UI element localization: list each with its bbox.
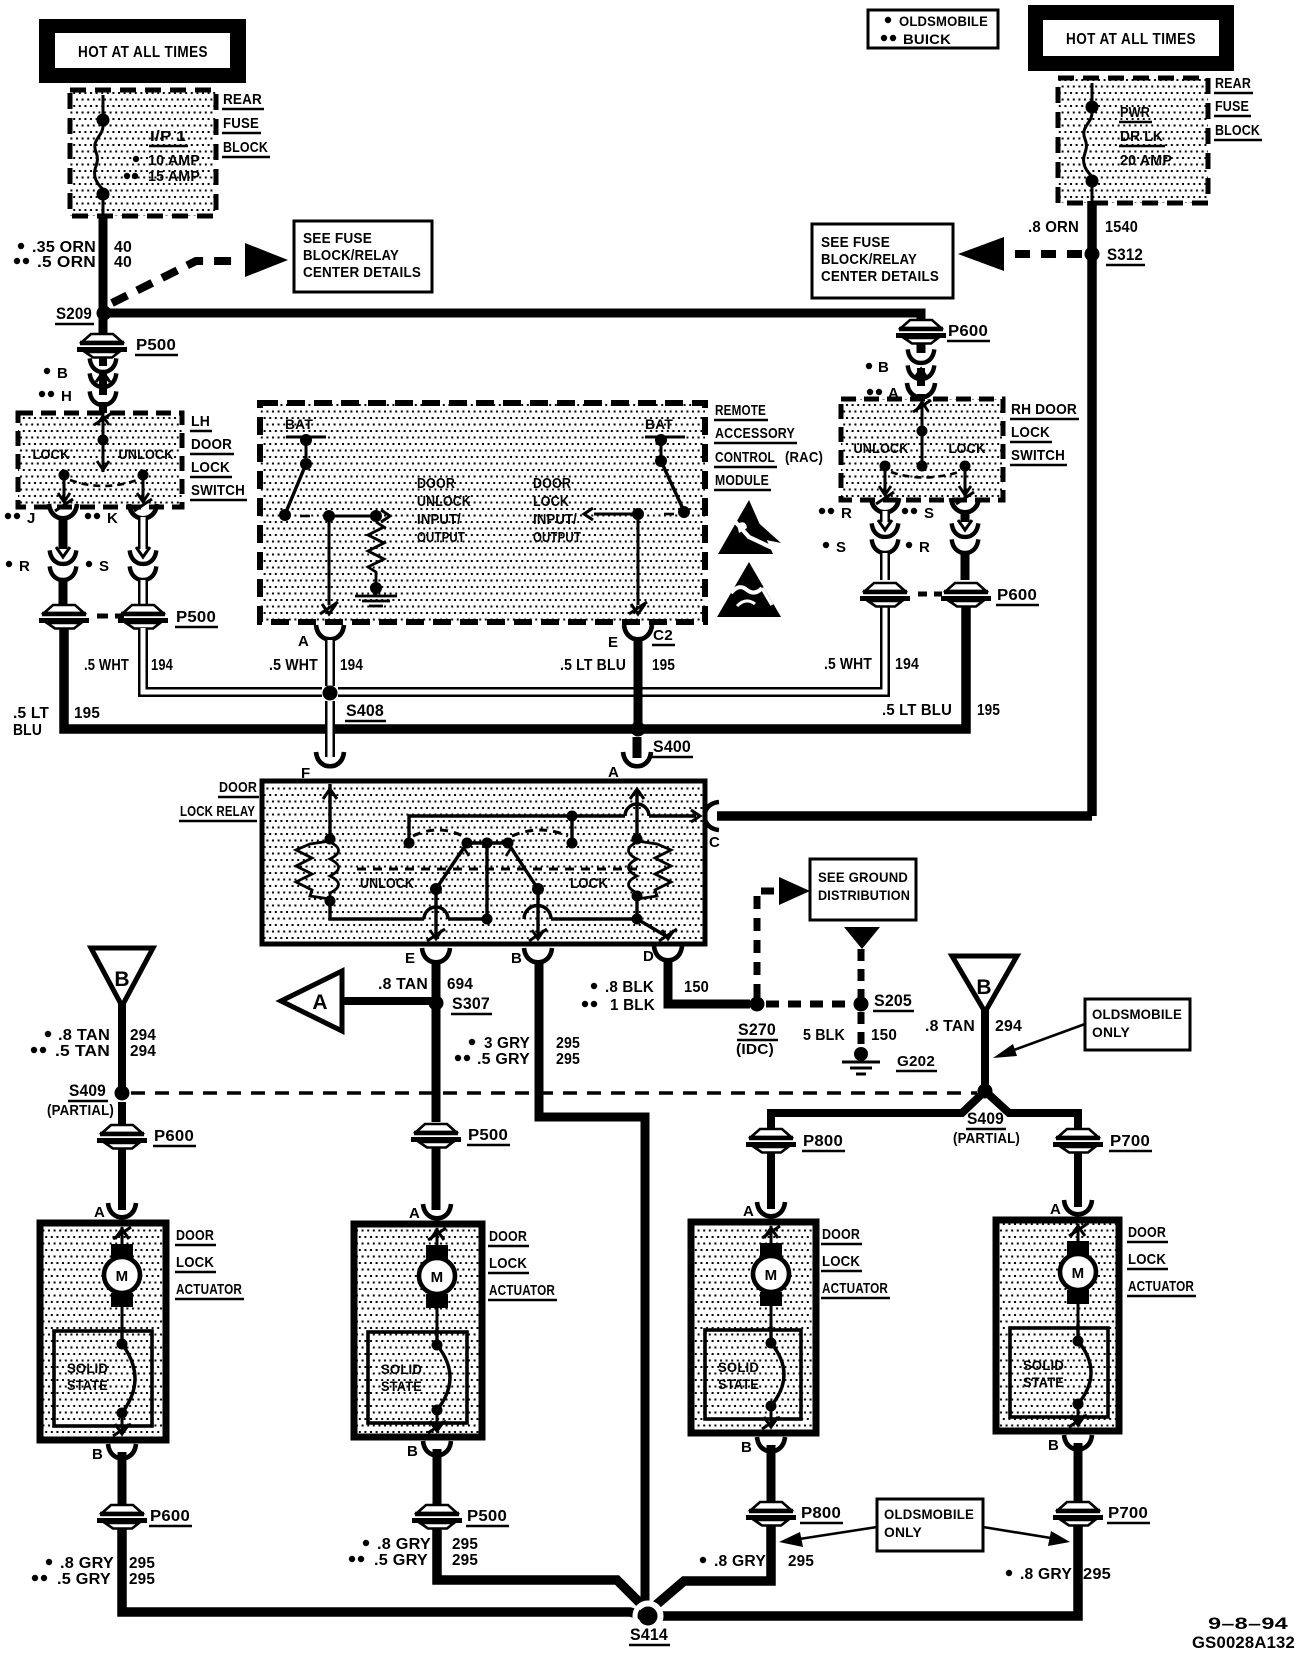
svg-text:.8 GRY: .8 GRY (60, 1555, 114, 1572)
svg-text:B: B (741, 1439, 752, 1456)
svg-text:(PARTIAL): (PARTIAL) (953, 1130, 1020, 1147)
drawing number GS0028A132 (1192, 1633, 1295, 1652)
svg-text:I/P 1: I/P 1 (150, 128, 186, 145)
svg-text:DOOR: DOOR (1128, 1224, 1166, 1241)
actuator 4 internal switch arc (1069, 1324, 1091, 1427)
svg-text:BUICK: BUICK (903, 31, 951, 47)
svg-text:40: 40 (114, 254, 132, 271)
svg-text:M: M (431, 1269, 444, 1286)
svg-text:S: S (924, 505, 934, 522)
rear fuse block (right, stippled dashed box) (1058, 78, 1208, 203)
svg-text:295: 295 (1083, 1566, 1111, 1583)
svg-text:P500: P500 (468, 1127, 508, 1144)
svg-text:(PARTIAL): (PARTIAL) (47, 1102, 114, 1119)
relay terminal F wire and up arrow (323, 784, 337, 839)
svg-text:BLOCK: BLOCK (223, 139, 268, 156)
svg-text:OLDSMOBILE: OLDSMOBILE (884, 1506, 974, 1522)
wire label .5 WHT 194 (RAC A) (269, 657, 363, 674)
wire RH right with in-line connector R (906, 511, 979, 580)
relay terminal letters F A (301, 764, 619, 782)
dashed S409 partial bus across page (131, 1091, 977, 1095)
note box SEE GROUND DISTRIBUTION (810, 859, 916, 920)
ground G202 (842, 1047, 937, 1074)
svg-text:10 AMP: 10 AMP (148, 152, 200, 169)
wire label 3 GRY / .5 GRY 295 295 (455, 1035, 580, 1068)
hollow 194 bus from S408 to RH switch (338, 606, 885, 692)
svg-text:.5 LT BLU: .5 LT BLU (560, 657, 626, 674)
svg-text:R: R (919, 539, 930, 556)
svg-text:B: B (92, 1446, 103, 1463)
wire relay B down and over to S414 (circuit 295 GRY) (539, 962, 645, 1604)
relay bottom cups E B D (405, 946, 682, 967)
svg-text:195: 195 (977, 702, 1000, 719)
svg-text:CONTROL: CONTROL (715, 449, 775, 466)
svg-text:294: 294 (130, 1043, 156, 1060)
svg-text:LOCK: LOCK (570, 875, 608, 892)
svg-text:.5 TAN: .5 TAN (55, 1043, 110, 1060)
wire S209 down to P500 (LH feed) (99, 318, 108, 334)
actuator 1 motor M (104, 1227, 140, 1331)
RAC door lock output wire to terminal E (629, 514, 647, 614)
revision date 9-8-94 (1208, 1614, 1288, 1633)
svg-text:LOCK: LOCK (822, 1253, 860, 1270)
note box SEE FUSE BLOCK/RELAY CENTER DETAILS (right) (812, 224, 953, 298)
actuator 4 terminal B cup (1048, 1435, 1092, 1454)
wire B triangle right to S409 (981, 1010, 989, 1091)
svg-text:DOOR: DOOR (417, 476, 455, 492)
svg-text:RH DOOR: RH DOOR (1011, 401, 1077, 418)
actuator 2 terminal A cup (409, 1204, 451, 1222)
svg-text:C: C (709, 834, 720, 851)
svg-text:M: M (1072, 1265, 1085, 1282)
RAC lock switch blade (584, 461, 690, 520)
relay terminal A cup (623, 752, 651, 766)
svg-text:A: A (298, 633, 309, 650)
svg-text:P600: P600 (948, 323, 988, 340)
splice S400 (631, 722, 694, 758)
wire label .8 TAN 294 (right) (925, 1018, 1022, 1035)
svg-text:S205: S205 (874, 991, 912, 1010)
svg-text:A: A (94, 1204, 105, 1221)
svg-text:294: 294 (130, 1027, 156, 1044)
RH switch terminal cups R / S (819, 498, 979, 522)
svg-text:20 AMP: 20 AMP (1120, 152, 1172, 169)
wire RAC A to splice S408 (hollow, circuit 194) (325, 640, 335, 686)
svg-text:LOCK: LOCK (33, 446, 70, 462)
wire label .8 GRY / .5 GRY 295 295 (actuator 2) (349, 1536, 478, 1569)
svg-text:DOOR: DOOR (822, 1226, 860, 1243)
svg-text:G202: G202 (897, 1053, 935, 1070)
wire RH left with in-line connector S (hollow) (823, 511, 899, 580)
actuator 2 terminal B cup (407, 1441, 451, 1460)
svg-text:P800: P800 (803, 1133, 843, 1150)
svg-text:R: R (19, 558, 30, 575)
svg-text:P600: P600 (150, 1508, 190, 1525)
in-line terminals B / H on LH feed (39, 357, 117, 413)
connector P800 (actuator 3 return) (746, 1445, 843, 1526)
wire relay C to main feed from S312 (717, 811, 1092, 821)
svg-text:295: 295 (129, 1571, 155, 1588)
actuator 2 motor M (419, 1228, 455, 1332)
svg-text:STATE: STATE (718, 1376, 759, 1392)
wire LH K with in-line connector S (86, 517, 157, 604)
wire label .5 LT BLU 195 (RH) (882, 702, 1000, 719)
wire A triangle to S307 (342, 997, 432, 1005)
svg-text:(RAC): (RAC) (785, 449, 823, 466)
svg-text:HOT AT ALL TIMES: HOT AT ALL TIMES (78, 44, 208, 61)
svg-text:.5 LT: .5 LT (13, 705, 49, 722)
svg-text:P700: P700 (1108, 1505, 1148, 1522)
svg-text:A: A (409, 1205, 420, 1222)
svg-text:195: 195 (74, 705, 100, 722)
svg-text:.8 TAN: .8 TAN (925, 1018, 975, 1035)
wire actuator 3 to S414 (656, 1525, 771, 1605)
door lock actuator 4 (stippled box) (996, 1220, 1119, 1431)
svg-text:S414: S414 (630, 1625, 668, 1644)
svg-text:STATE: STATE (67, 1377, 108, 1393)
wire label .5 WHT 194 (left) (84, 657, 173, 674)
splice S312 (1085, 245, 1146, 265)
svg-text:BAT: BAT (285, 416, 313, 432)
svg-text:SWITCH: SWITCH (191, 482, 245, 499)
power label HOT AT ALL TIMES (right) (1028, 5, 1234, 71)
RAC unlock switch blade and resistor to ground (279, 464, 397, 606)
svg-text:.5 GRY: .5 GRY (374, 1552, 428, 1569)
wire label .5 LT BLU 195 (RAC E) (560, 657, 675, 674)
svg-text:694: 694 (447, 976, 473, 993)
LH switch terminal J cup and label (5, 504, 77, 527)
svg-text:15 AMP: 15 AMP (148, 168, 200, 185)
svg-text:LH: LH (191, 413, 210, 430)
relay unlock coil K1-unlock (296, 834, 414, 907)
door lock actuator 3 (stippled box) (691, 1222, 816, 1433)
svg-text:.5 LT BLU: .5 LT BLU (882, 702, 952, 719)
svg-text:.5 GRY: .5 GRY (57, 1571, 111, 1588)
svg-text:SWITCH: SWITCH (1011, 447, 1065, 464)
svg-text:C2: C2 (653, 627, 673, 644)
off-page connector B triangle (left) (91, 948, 153, 1006)
connector P500 (LH feed) (77, 334, 178, 358)
svg-text:BLU: BLU (13, 722, 42, 739)
relay contact common and movable arms (430, 838, 544, 896)
svg-text:BLOCK/RELAY: BLOCK/RELAY (303, 248, 399, 264)
svg-text:DOOR: DOOR (176, 1227, 214, 1244)
wire label .8 ORN 1540 (1028, 219, 1138, 236)
svg-text:1 BLK: 1 BLK (610, 997, 655, 1014)
svg-text:P500: P500 (136, 337, 176, 354)
LH door lock switch (stippled dashed box) (18, 413, 182, 507)
wire P700 to actuator 4 terminal A (1074, 1152, 1082, 1207)
LH switch internal contacts LOCK / UNLOCK (33, 413, 174, 511)
splice S209 (55, 304, 112, 324)
svg-text:.5 ORN: .5 ORN (37, 254, 96, 271)
label RH DOOR LOCK SWITCH (1010, 401, 1079, 465)
relay armature linkage (dashed) (357, 830, 637, 869)
svg-text:STATE: STATE (381, 1378, 422, 1394)
note box OLDSMOBILE ONLY (lower) (779, 1499, 1070, 1551)
svg-text:295: 295 (556, 1035, 580, 1052)
svg-text:195: 195 (652, 657, 675, 674)
svg-text:.8 GRY: .8 GRY (714, 1553, 766, 1570)
wire label .8 TAN 694 (378, 976, 473, 993)
svg-text:OUTPUT: OUTPUT (417, 530, 465, 546)
fuse label PWR DR LK 20 AMP (1119, 104, 1172, 169)
svg-text:OLDSMOBILE: OLDSMOBILE (1092, 1006, 1182, 1022)
svg-text:B: B (57, 365, 68, 382)
actuator 3 terminal B cup (741, 1437, 785, 1456)
actuator 3 internal switch arc (762, 1326, 784, 1429)
svg-text:ACCESSORY: ACCESSORY (715, 425, 795, 442)
wire actuator 2 to S414 (437, 1528, 641, 1604)
svg-text:.5 GRY: .5 GRY (477, 1051, 530, 1068)
svg-text:.5 WHT: .5 WHT (824, 656, 872, 673)
ESD notice symbol 2 (717, 562, 781, 617)
relay lock coil K1-lock (570, 789, 671, 902)
svg-text:P800: P800 (801, 1505, 841, 1522)
svg-text:ACTUATOR: ACTUATOR (822, 1280, 888, 1297)
svg-text:SEE FUSE: SEE FUSE (821, 235, 890, 251)
svg-text:B: B (976, 976, 991, 999)
svg-text:SOLID: SOLID (67, 1360, 108, 1376)
relay terminal C cup and letter (705, 802, 720, 851)
relay terminal E internal wire (427, 889, 445, 941)
svg-text:UNLOCK: UNLOCK (360, 875, 414, 892)
label DOOR LOCK ACTUATOR 4 (1127, 1224, 1196, 1296)
svg-text:1540: 1540 (1105, 219, 1138, 236)
splice S205 (854, 991, 915, 1012)
svg-text:S409: S409 (967, 1109, 1004, 1128)
svg-text:LOCK: LOCK (1011, 424, 1050, 441)
wire from left fuse to S209 (99, 214, 108, 313)
svg-text:LOCK: LOCK (191, 459, 230, 476)
wire S400 down to relay terminal A (633, 737, 642, 758)
svg-text:UNLOCK: UNLOCK (854, 440, 909, 456)
svg-text:REAR: REAR (223, 91, 262, 108)
svg-text:295: 295 (788, 1553, 814, 1570)
splice S307 (429, 994, 493, 1014)
svg-text:B: B (1048, 1437, 1059, 1454)
wire from right fuse down to S312 (1087, 201, 1097, 816)
relay bottom-right link and terminal D exit (524, 896, 677, 941)
svg-text:LOCK: LOCK (489, 1255, 527, 1272)
dashed ground path S270 up to ground distribution note (757, 877, 810, 997)
svg-text:E: E (405, 950, 415, 967)
label LH DOOR LOCK SWITCH (190, 413, 247, 500)
svg-text:P700: P700 (1110, 1133, 1150, 1150)
svg-text:S409: S409 (69, 1081, 106, 1100)
RH door lock switch (stippled dashed box) (841, 399, 1003, 500)
label REAR FUSE BLOCK (right) (1214, 75, 1262, 140)
wire label .8 BLK / 1 BLK 150 (582, 979, 709, 1014)
svg-text:194: 194 (151, 657, 173, 674)
relay lock stationary contact (567, 811, 578, 849)
wires S409 right to P800 and P700 feeds (771, 1091, 1078, 1128)
svg-text:INPUT/: INPUT/ (417, 512, 461, 528)
door lock actuator 2 (stippled box) (354, 1224, 482, 1437)
svg-text:CENTER DETAILS: CENTER DETAILS (303, 265, 421, 281)
label DOOR LOCK ACTUATOR 2 (488, 1228, 557, 1300)
svg-text:OUTPUT: OUTPUT (533, 530, 581, 546)
svg-text:A: A (1050, 1201, 1061, 1218)
svg-text:ACTUATOR: ACTUATOR (176, 1281, 242, 1298)
svg-text:DISTRIBUTION: DISTRIBUTION (818, 887, 910, 903)
label REAR FUSE BLOCK (left) (222, 91, 270, 157)
wire label .5 LT BLU 195 (left) (13, 705, 100, 739)
label DOOR LOCK ACTUATOR 1 (175, 1227, 244, 1299)
wire RAC E to splice S400 (circuit 195 LT BLU) (634, 640, 643, 729)
svg-text:150: 150 (684, 979, 709, 996)
actuator 3 terminal A cup (743, 1202, 785, 1220)
LH switch terminal K cup and label (85, 504, 157, 527)
relay unlock stationary contact and wire to terminal C (404, 804, 701, 849)
svg-text:.8 GRY: .8 GRY (377, 1536, 431, 1553)
relay terminal B internal wire (529, 889, 547, 941)
ESD notice symbol 1 (718, 500, 783, 554)
svg-text:P500: P500 (176, 609, 216, 626)
actuator 1 terminal B cup (92, 1444, 136, 1463)
svg-text:5 BLK: 5 BLK (803, 1027, 845, 1044)
svg-text:A: A (608, 764, 619, 781)
svg-text:295: 295 (452, 1552, 478, 1569)
svg-text:DOOR: DOOR (533, 476, 571, 492)
svg-text:194: 194 (340, 657, 363, 674)
svg-text:REMOTE: REMOTE (715, 402, 766, 419)
svg-text:DOOR: DOOR (191, 436, 232, 453)
svg-text:SOLID: SOLID (718, 1359, 759, 1375)
connector P500 (actuator 2 feed) (411, 1124, 510, 1148)
svg-text:H: H (61, 388, 72, 405)
svg-text:ACTUATOR: ACTUATOR (489, 1282, 555, 1299)
wire relay D to S270 (circuit 150 BLK) (668, 960, 750, 1004)
svg-text:295: 295 (129, 1555, 155, 1572)
svg-text:.8 ORN: .8 ORN (1028, 219, 1079, 236)
svg-text:S: S (99, 558, 109, 575)
svg-text:B: B (511, 950, 522, 967)
svg-text:OLDSMOBILE: OLDSMOBILE (899, 13, 988, 29)
svg-text:.8 GRY: .8 GRY (1020, 1566, 1072, 1583)
svg-text:DOOR: DOOR (219, 779, 257, 796)
splice S409 left with label (47, 1081, 130, 1119)
svg-text:SEE GROUND: SEE GROUND (818, 869, 908, 885)
connector P600 (actuator 1 return) (97, 1452, 192, 1529)
wire P600 to actuator 1 terminal A (118, 1102, 126, 1210)
relay bottom link wire from unlock coil to contact common (330, 843, 493, 925)
connector P600 (RH switch, two cavities) (860, 583, 1039, 607)
svg-text:F: F (301, 765, 310, 782)
wire label .5 WHT 194 (RH) (824, 656, 919, 673)
svg-text:M: M (765, 1267, 778, 1284)
splice S414 star junction (629, 1603, 670, 1645)
svg-text:ACTUATOR: ACTUATOR (1128, 1278, 1194, 1295)
off-page connector A triangle (281, 971, 342, 1031)
wire B triangle left down to S409 (118, 1004, 126, 1090)
connector P600 (top right feed) (896, 320, 990, 344)
svg-text:S312: S312 (1107, 245, 1143, 264)
off-page connector B triangle (right) (952, 956, 1017, 1012)
svg-text:295: 295 (452, 1536, 478, 1553)
svg-text:BLOCK/RELAY: BLOCK/RELAY (821, 252, 917, 268)
svg-text:HOT AT ALL TIMES: HOT AT ALL TIMES (1066, 31, 1196, 48)
svg-text:PWR: PWR (1120, 104, 1150, 121)
power label HOT AT ALL TIMES (left) (39, 19, 246, 83)
svg-text:A: A (743, 1203, 754, 1220)
svg-text:S400: S400 (653, 737, 691, 756)
svg-text:S: S (836, 539, 846, 556)
connector P700 (actuator 4 feed) (1053, 1129, 1152, 1153)
RAC text DOOR UNLOCK INPUT/OUTPUT (417, 476, 471, 546)
connector P500 (actuator 2 return) (412, 1449, 509, 1529)
svg-text:SOLID: SOLID (381, 1361, 422, 1377)
svg-text:UNLOCK: UNLOCK (119, 446, 174, 462)
svg-text:SOLID: SOLID (1023, 1357, 1064, 1373)
splice S408 (323, 686, 387, 722)
RAC BAT node left (285, 416, 326, 470)
svg-text:150: 150 (871, 1027, 897, 1044)
svg-text:UNLOCK: UNLOCK (417, 494, 471, 510)
fuse I/P 1 element inside left fuse block (95, 95, 110, 216)
rear fuse block (left, stippled dashed box) (70, 90, 216, 216)
actuator 2 internal switch arc (428, 1328, 450, 1433)
svg-text:S270: S270 (738, 1020, 776, 1039)
RAC BAT node right (645, 416, 685, 467)
svg-text:3 GRY: 3 GRY (484, 1035, 530, 1052)
remote accessory control RAC module (stippled dashed box) (260, 403, 705, 622)
svg-text:LOCK: LOCK (949, 440, 986, 456)
svg-text:R: R (841, 505, 852, 522)
actuator 4 terminal A cup (1050, 1200, 1092, 1218)
svg-text:FUSE: FUSE (1215, 98, 1249, 115)
label DOOR LOCK ACTUATOR 3 (821, 1226, 890, 1298)
splice S409 right with label (953, 1084, 1020, 1148)
relay terminal F cup (316, 752, 344, 766)
wire label .8 GRY / .5 GRY 295 295 (actuator 1) (32, 1555, 155, 1588)
svg-text:.5 WHT: .5 WHT (84, 657, 129, 674)
svg-text:S408: S408 (346, 701, 384, 720)
wire P500 to front door lock actuator 2 terminal A (432, 1147, 441, 1210)
wire label .8 GRY 295 (actuator 4) (1006, 1566, 1111, 1583)
actuator 3 solid state block (705, 1330, 801, 1419)
RH switch internal contacts UNLOCK / LOCK (854, 400, 986, 504)
wire actuator 1 to S414 (122, 1528, 645, 1616)
svg-text:B: B (878, 359, 889, 376)
label DOOR LOCK RELAY (179, 779, 259, 821)
actuator 4 motor M (1060, 1224, 1096, 1328)
legend box OLDSMOBILE / BUICK (868, 10, 998, 48)
main feed wire S209 to P600 (top horizontal) (104, 313, 921, 321)
svg-text:S307: S307 (452, 994, 490, 1013)
connector P600 (actuator 1 feed) (97, 1125, 196, 1149)
note box OLDSMOBILE ONLY (upper) (993, 999, 1190, 1058)
wire P600 to RH door lock switch with in-line terminals B / A (866, 343, 935, 402)
wire relay E to S307 and P500 (circuit 694/295) (432, 962, 441, 1122)
actuator 3 motor M (753, 1226, 789, 1330)
svg-text:ONLY: ONLY (884, 1524, 922, 1540)
svg-text:ONLY: ONLY (1092, 1024, 1130, 1040)
svg-text:P600: P600 (154, 1128, 194, 1145)
svg-text:.8 TAN: .8 TAN (378, 976, 428, 993)
dashed pointer from S312 to fuse-details note (right) (958, 237, 1082, 271)
svg-text:D: D (643, 948, 654, 965)
actuator 1 internal switch arc (113, 1327, 135, 1436)
actuator 1 solid state block (54, 1331, 152, 1426)
svg-text:LOCK: LOCK (1128, 1251, 1166, 1268)
actuator 2 solid state block (368, 1332, 467, 1423)
svg-text:M: M (116, 1268, 129, 1285)
dashed link S270 to S205 (766, 1001, 852, 1008)
wire label .35 ORN 40 / .5 ORN 40 (14, 239, 132, 271)
door lock actuator 1 (stippled box) (40, 1223, 166, 1440)
wire S408 down to relay terminal F (hollow) (325, 701, 335, 757)
